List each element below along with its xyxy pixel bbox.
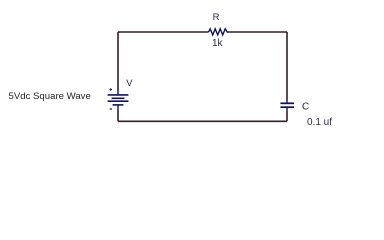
wire left upper	[117, 32, 119, 90]
plus mark	[110, 88, 113, 90]
svg-text:5Vdc Square Wave: 5Vdc Square Wave	[9, 91, 91, 102]
wire bottom	[118, 120, 287, 122]
wire left lower	[117, 110, 119, 121]
svg-text:C: C	[302, 102, 309, 113]
svg-text:1k: 1k	[212, 38, 224, 49]
capacitor C	[280, 100, 294, 111]
svg-text:R: R	[213, 12, 220, 23]
wire right upper	[286, 32, 288, 100]
svg-text:0.1 uf: 0.1 uf	[307, 117, 332, 128]
wire top-right segment	[230, 31, 287, 33]
minus mark	[110, 108, 112, 110]
wire top-left segment	[118, 31, 209, 33]
svg-text:V: V	[126, 78, 133, 89]
resistor R1	[209, 29, 230, 35]
voltage source V (battery)	[108, 90, 129, 110]
wire right lower	[286, 111, 288, 121]
